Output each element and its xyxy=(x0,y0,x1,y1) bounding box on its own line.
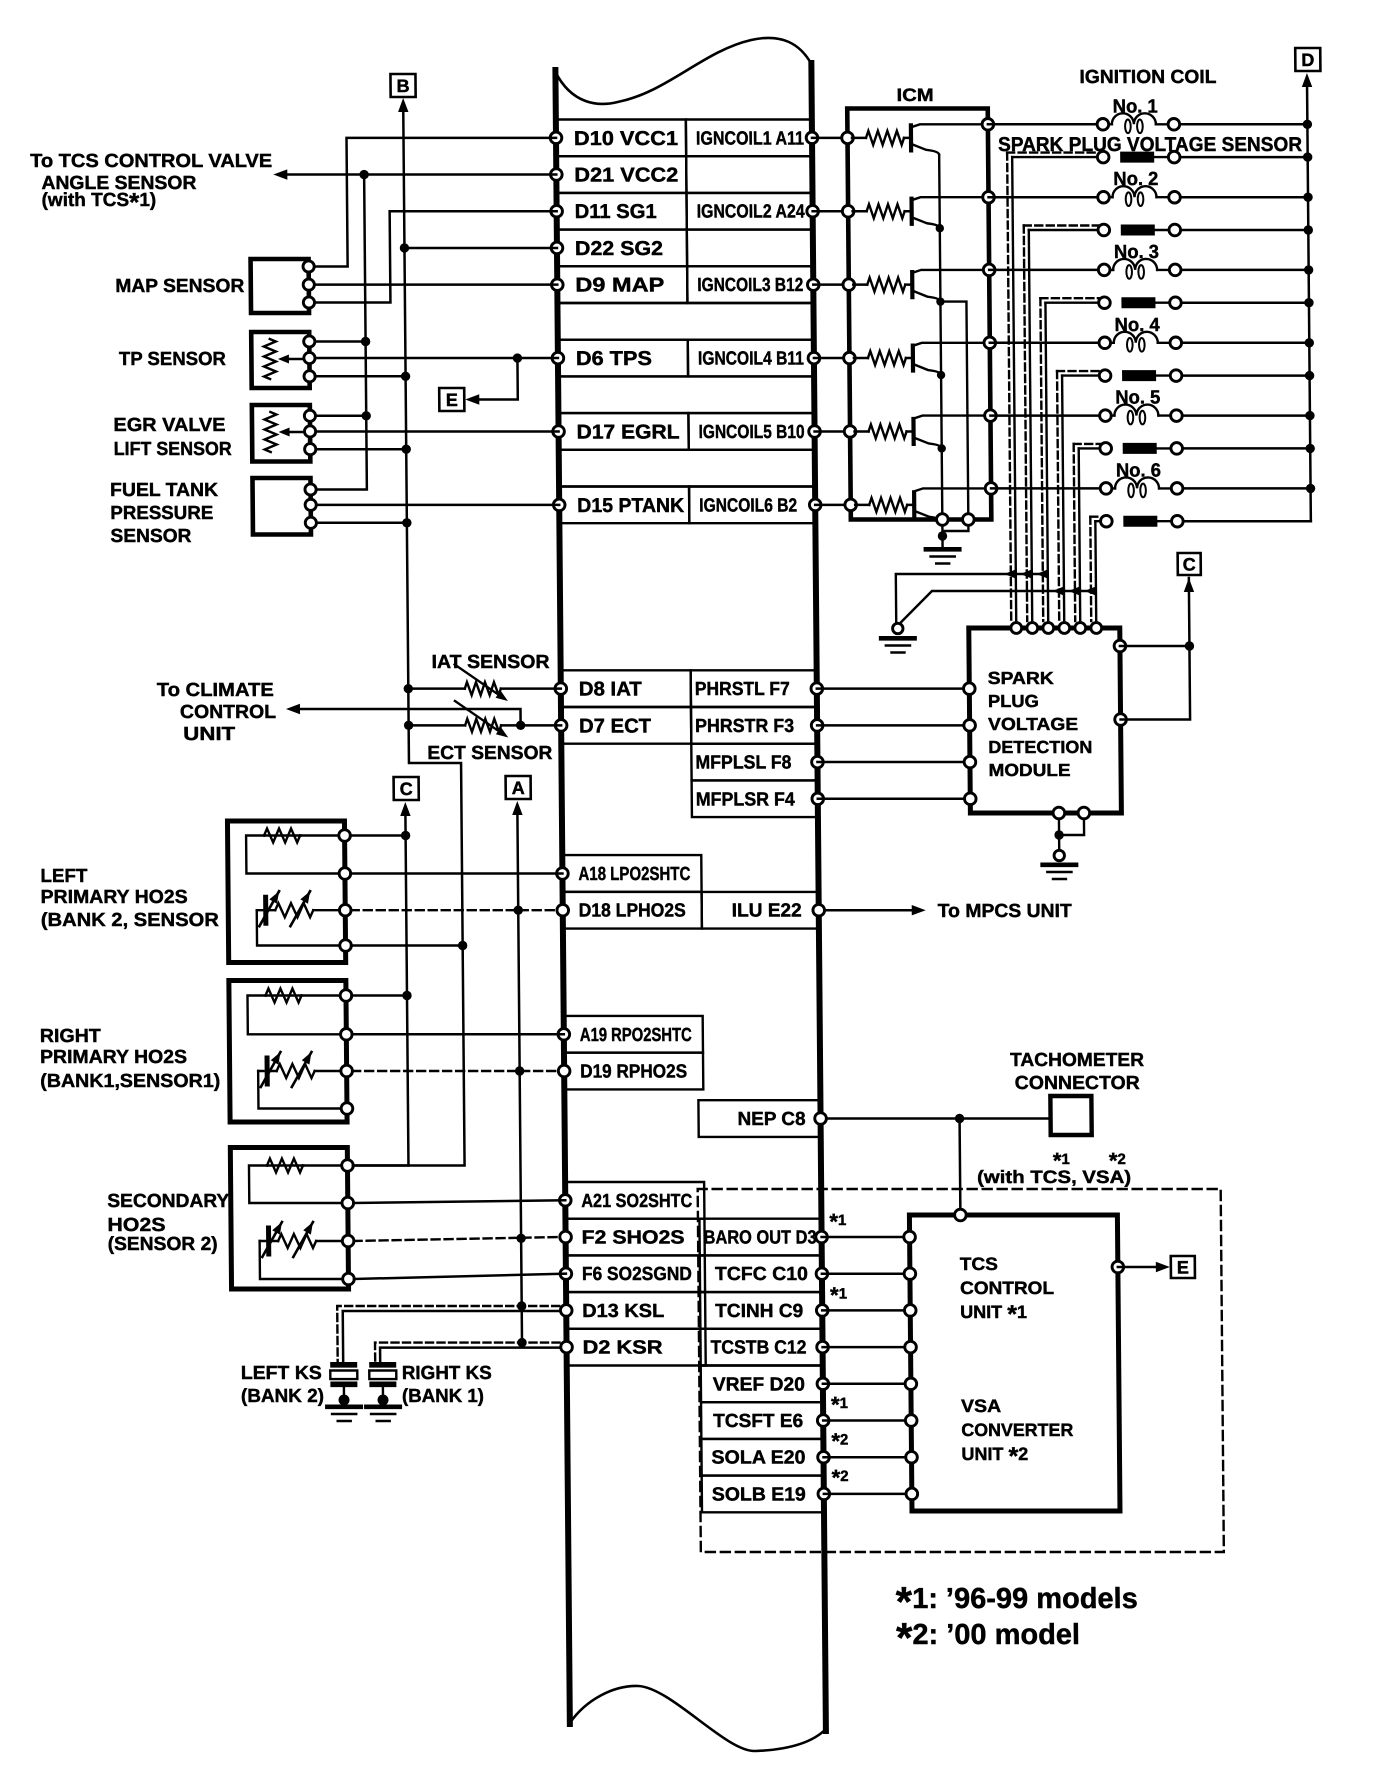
secondary HO2S heater resistor xyxy=(267,1164,304,1166)
pin terminal C8 xyxy=(815,1113,827,1125)
connector E xyxy=(439,388,464,411)
svg-text:IGNCOIL2 A24: IGNCOIL2 A24 xyxy=(697,202,806,223)
ICM output terminal 5 xyxy=(985,410,997,422)
wire TP pin3 to SG bus xyxy=(315,375,406,378)
pin terminal E19 xyxy=(818,1488,830,1500)
wire to climate control unit xyxy=(297,709,521,725)
svg-text:UNIT: UNIT xyxy=(183,724,236,745)
TCS control unit / VSA converter unit box xyxy=(909,1215,1120,1511)
spark plug voltage sensor No. 6 xyxy=(1090,516,1101,518)
ECM pin row D6 TPS xyxy=(558,340,688,377)
transistor Q6 xyxy=(912,492,916,517)
EGR pin 3 xyxy=(305,444,316,455)
ECM pin row TCSFT E6 xyxy=(701,1402,823,1439)
wire sensor 6 to D bus xyxy=(1183,520,1311,523)
ECM pin row BARO OUT D3 xyxy=(699,1219,821,1256)
svg-text:D13 KSL: D13 KSL xyxy=(582,1301,665,1322)
right primary HO2S xyxy=(229,981,347,1123)
svg-text:B: B xyxy=(396,76,409,96)
svg-text:D18 LPHO2S: D18 LPHO2S xyxy=(579,901,686,922)
wire coil 2 to D bus xyxy=(1181,196,1309,199)
svg-text:LEFT: LEFT xyxy=(40,866,88,887)
wire sensor 2 to D bus xyxy=(1181,229,1309,232)
wire module to ECM row 4 xyxy=(818,798,971,801)
FTP pin 2 xyxy=(305,499,316,510)
pin terminal OUT xyxy=(816,1231,828,1243)
pin terminal D6 xyxy=(552,352,564,364)
svg-text:A21 SO2SHTC: A21 SO2SHTC xyxy=(581,1191,692,1212)
ICM output terminal 1 xyxy=(982,119,994,131)
svg-text:D9 MAP: D9 MAP xyxy=(575,275,664,297)
svg-text:HO2S: HO2S xyxy=(107,1215,165,1236)
ECM right edge xyxy=(811,63,826,1731)
wire ILU E22 to MPCS unit xyxy=(825,909,913,912)
shield ground line 1 xyxy=(896,574,1043,623)
module top terminal 3 xyxy=(1043,623,1054,634)
ECM pin row D21 VCC2 xyxy=(556,156,686,193)
pin terminal D8 xyxy=(555,683,567,695)
ICM module box xyxy=(847,109,991,520)
right primary HO2S pin 2 xyxy=(340,1029,352,1041)
wire module to ECM row 2 xyxy=(817,724,970,727)
wire right primary HO2S pin2 to A19 RPO2SHTC xyxy=(352,1033,564,1036)
junction ICM emitter bus xyxy=(937,444,945,452)
wire sensor 1 to D bus xyxy=(1180,156,1308,159)
module top terminal 2 xyxy=(1027,623,1038,634)
svg-text:A18 LPO2SHTC: A18 LPO2SHTC xyxy=(578,864,690,885)
wire ECM to TCS terminal 2 xyxy=(822,1272,910,1275)
right primary HO2S pin 3 xyxy=(341,1065,353,1077)
wire ECM IGNCOIL1 to ICM stage 1 xyxy=(812,137,848,140)
svg-text:SENSOR: SENSOR xyxy=(110,526,191,547)
branch to connector E xyxy=(513,353,522,362)
ground (right knock sensor RIGHT KS) xyxy=(364,1405,402,1410)
spark plug voltage sensor No. 5 xyxy=(1074,443,1101,445)
ECM pin row PHRSTL F7 xyxy=(561,670,691,707)
ICM input terminal 3 xyxy=(843,279,855,291)
svg-text:PHRSTL F7: PHRSTL F7 xyxy=(695,679,790,700)
ICM output terminal 4 xyxy=(984,337,996,349)
pin terminal A18 xyxy=(557,868,569,880)
ECM pin row D18 LPHO2S xyxy=(563,892,702,929)
wire coil 3 to D bus xyxy=(1181,269,1309,272)
TP pin 1 xyxy=(304,336,315,347)
svg-text:MAP SENSOR: MAP SENSOR xyxy=(115,276,244,297)
connector B xyxy=(390,74,415,97)
ECM pin row MFPLSR F4 xyxy=(692,780,818,817)
pin terminal D9 xyxy=(551,279,563,291)
wire ECM to TCS terminal 1 xyxy=(822,1236,910,1239)
right primary HO2S heater resistor xyxy=(265,994,302,996)
wire left primary HO2S pin4 to SG bus xyxy=(351,944,463,947)
ICM input terminal 2 xyxy=(842,205,854,217)
svg-text:PRESSURE: PRESSURE xyxy=(110,503,213,524)
wire ECM to TCS terminal 4 xyxy=(823,1346,911,1349)
svg-text:D6 TPS: D6 TPS xyxy=(576,348,652,370)
svg-text:PRIMARY HO2S: PRIMARY HO2S xyxy=(40,1047,187,1068)
svg-text:F2 SHO2S: F2 SHO2S xyxy=(582,1228,685,1249)
svg-text:TCS: TCS xyxy=(960,1254,998,1274)
pin terminal A21 xyxy=(559,1195,571,1207)
svg-text:VREF D20: VREF D20 xyxy=(713,1374,805,1395)
svg-text:CONVERTER: CONVERTER xyxy=(961,1420,1073,1440)
module left terminal 2 xyxy=(964,720,976,732)
svg-text:IGNCOIL5 B10: IGNCOIL5 B10 xyxy=(698,422,804,443)
pin terminal D2 xyxy=(561,1341,573,1353)
connector D xyxy=(1295,48,1320,71)
svg-text:A: A xyxy=(512,778,525,798)
pin terminal D20 xyxy=(817,1378,829,1390)
wire sensor 3 to D bus xyxy=(1181,301,1309,304)
right primary HO2S sensing element xyxy=(265,1058,270,1084)
shield ground line 2 xyxy=(901,591,1091,622)
svg-text:PRIMARY HO2S: PRIMARY HO2S xyxy=(41,887,188,908)
secondary HO2S xyxy=(230,1148,348,1290)
wire TP pin2 to D6 TPS xyxy=(315,357,558,360)
transistor Q4 xyxy=(911,346,915,371)
pin terminal C10 xyxy=(816,1268,828,1280)
right primary HO2S pin 1 xyxy=(340,990,352,1002)
module left terminal 4 xyxy=(964,793,976,805)
left primary HO2S pin 2 xyxy=(339,868,351,880)
ECM pin row D2 KSR xyxy=(566,1329,705,1366)
wire module to ECM row 3 xyxy=(817,761,970,764)
svg-text:D: D xyxy=(1301,50,1314,70)
ICM output terminal 3 xyxy=(983,264,995,276)
wire right primary HO2S pin3 to D19 RPHO2S (shielded) xyxy=(352,1070,558,1072)
svg-text:To CLIMATE: To CLIMATE xyxy=(157,680,274,701)
wire left primary HO2S pin3 to D18 LPHO2S (shielded) xyxy=(351,909,557,911)
svg-text:C: C xyxy=(400,779,413,799)
svg-text:ILU E22: ILU E22 xyxy=(732,901,802,922)
svg-text:(BANK 2): (BANK 2) xyxy=(241,1386,324,1407)
svg-text:SOLB E19: SOLB E19 xyxy=(712,1484,806,1505)
wire D9 MAP to MAP pin2 xyxy=(314,283,557,286)
wire EGR pin2 to D17 EGRL xyxy=(316,430,559,433)
pin terminal F2 xyxy=(560,1231,572,1243)
TCS right terminal to connector E xyxy=(1112,1261,1124,1273)
left knock sensor LEFT KS xyxy=(330,1362,357,1368)
svg-text:VSA: VSA xyxy=(961,1396,1001,1416)
wire left knock sensor to D13 KSL (shield) xyxy=(337,1306,559,1361)
svg-text:To MPCS UNIT: To MPCS UNIT xyxy=(938,901,1073,922)
wire ECM IGNCOIL3 to ICM stage 3 xyxy=(813,283,849,286)
ECM pin row SOLA E20 xyxy=(701,1439,823,1476)
wire secondary HO2S pin3 to F2 SHO2S (shielded) xyxy=(354,1237,560,1241)
pin terminal D10 xyxy=(550,132,562,144)
svg-text:MFPLSL F8: MFPLSL F8 xyxy=(695,753,791,774)
ICM emitter bus 1 xyxy=(939,155,942,520)
pin terminal B11 xyxy=(808,352,820,364)
ECM empty spacer row 8 xyxy=(558,376,814,413)
connector E (right) xyxy=(1171,1256,1195,1278)
wire left knock sensor to D13 KSL (core) xyxy=(343,1311,561,1361)
pin terminal D18 xyxy=(557,904,569,916)
shielded cable 5 verticals xyxy=(1074,444,1076,621)
pin terminal E20 xyxy=(818,1451,830,1463)
wire left primary HO2S pin2 to A18 LPO2SHTC xyxy=(350,872,562,875)
pin terminal D7 xyxy=(555,720,567,732)
wire NEP C8 to tachometer connector xyxy=(827,1117,1051,1120)
TCS top terminal xyxy=(955,1209,967,1221)
wire right knock sensor to D2 KSR (core) xyxy=(380,1348,561,1361)
MAP pin 1 xyxy=(303,261,314,272)
ECM pin row D15 PTANK xyxy=(559,487,689,524)
svg-text:(BANK 2, SENSOR: (BANK 2, SENSOR xyxy=(41,910,219,931)
svg-text:D21 VCC2: D21 VCC2 xyxy=(574,165,678,187)
wire coil 5 to D bus xyxy=(1182,414,1310,417)
svg-text:(SENSOR 2): (SENSOR 2) xyxy=(108,1234,218,1255)
ECM pin row MFPLSL F8 xyxy=(691,744,817,781)
transistor Q3 xyxy=(910,272,914,297)
ECM pin row D19 RPHO2S xyxy=(564,1053,703,1090)
wire module to ECM row 1 xyxy=(817,687,970,690)
spark plug voltage sensor No. 4 xyxy=(1057,370,1100,372)
junction ICM emitter bus xyxy=(937,371,945,379)
module left terminal 3 xyxy=(964,756,976,768)
shielded cable 2 verticals xyxy=(1024,226,1027,622)
svg-text:(BANK1,SENSOR1): (BANK1,SENSOR1) xyxy=(40,1071,220,1092)
module bottom terminals xyxy=(1053,807,1065,819)
shielded cable 6 verticals xyxy=(1089,517,1092,621)
wire ECM to TCS terminal 3 xyxy=(822,1309,910,1312)
SG bus vertical xyxy=(344,112,465,1166)
ICM output terminal 6 xyxy=(985,483,997,495)
FTP pin 1 xyxy=(305,484,316,495)
ECM pin row D22 SG2 xyxy=(557,230,687,267)
ECM pin row VREF D20 xyxy=(701,1366,823,1403)
ECM pin row F6 SO2SGND xyxy=(566,1255,705,1292)
ICM emitter bus 2 xyxy=(940,302,968,520)
svg-text:LIFT SENSOR: LIFT SENSOR xyxy=(114,439,232,460)
wire ECM to TCS terminal 5 xyxy=(823,1383,911,1386)
pin terminal D17 xyxy=(553,426,565,438)
ECM empty spacer row 10 xyxy=(559,450,815,487)
module right terminal 2 xyxy=(1115,714,1127,726)
svg-text:To TCS CONTROL VALVE: To TCS CONTROL VALVE xyxy=(30,151,272,172)
svg-text:D10 VCC1: D10 VCC1 xyxy=(574,128,678,150)
svg-text:ICM: ICM xyxy=(897,85,934,105)
svg-text:D15 PTANK: D15 PTANK xyxy=(577,495,685,517)
svg-text:CONNECTOR: CONNECTOR xyxy=(1015,1073,1140,1094)
pin terminal B2 xyxy=(809,499,821,511)
EGR pin 1 xyxy=(304,410,315,421)
TP sensor xyxy=(251,332,309,388)
wire secondary HO2S pin4 to F6 SO2SGND xyxy=(354,1274,566,1279)
pin terminal A19 xyxy=(558,1029,570,1041)
svg-text:CONTROL: CONTROL xyxy=(960,1278,1054,1298)
ECM pin row PHRSTR F3 xyxy=(561,707,691,744)
TP pin 2 xyxy=(304,352,315,363)
svg-text:A19 RPO2SHTC: A19 RPO2SHTC xyxy=(580,1025,692,1046)
secondary HO2S pin 2 xyxy=(342,1197,354,1209)
wire ECM to TCS terminal 6 xyxy=(823,1419,911,1422)
module top terminal 4 xyxy=(1059,623,1070,634)
ICM input terminal 1 xyxy=(842,132,854,144)
wire EGR pin1 to VCC2 bus xyxy=(315,415,366,418)
svg-text:EGR VALVE: EGR VALVE xyxy=(113,415,225,436)
EGR valve lift sensor xyxy=(252,405,310,462)
FTP pin 3 xyxy=(305,517,316,528)
spark plug voltage sensor No. 1 xyxy=(1007,151,1098,153)
wire ECM IGNCOIL6 to ICM stage 6 xyxy=(815,504,851,507)
ECM pin row A18 LPO2SHTC xyxy=(562,855,701,892)
secondary HO2S pin 1 xyxy=(342,1160,354,1172)
pin terminal B10 xyxy=(809,426,821,438)
wire coil 4 to D bus xyxy=(1182,342,1310,345)
svg-text:TP SENSOR: TP SENSOR xyxy=(119,349,226,370)
TP pin 3 xyxy=(304,371,315,382)
pin terminal F3 xyxy=(811,720,823,732)
pin terminal E22 xyxy=(813,904,825,916)
wire EGR pin3 to SG bus xyxy=(316,448,407,451)
wire ECM IGNCOIL2 to ICM stage 2 xyxy=(813,210,849,213)
pin terminal D13 xyxy=(560,1305,572,1317)
VCC2 bus vertical xyxy=(313,175,367,490)
svg-text:IGNCOIL1 A11: IGNCOIL1 A11 xyxy=(696,128,805,149)
resistor ICM stage 2 xyxy=(853,210,867,213)
EGR sensor potentiometer xyxy=(264,412,276,452)
shielded cable 3 verticals xyxy=(1040,298,1043,621)
junction ICM emitter bus xyxy=(936,224,944,232)
left primary HO2S pin 1 xyxy=(339,830,351,842)
ECM pin row A19 RPO2SHTC xyxy=(564,1016,703,1053)
left primary HO2S heater resistor xyxy=(264,834,301,836)
EGR pin 2 xyxy=(304,426,315,437)
svg-text:LEFT KS: LEFT KS xyxy=(241,1363,322,1384)
transistor Q1 xyxy=(909,125,913,150)
svg-text:IGNITION COIL: IGNITION COIL xyxy=(1079,67,1217,88)
svg-text:SOLA E20: SOLA E20 xyxy=(711,1448,805,1469)
resistor ICM stage 3 xyxy=(853,283,867,286)
pin terminal E6 xyxy=(817,1415,829,1427)
svg-text:D11 SG1: D11 SG1 xyxy=(575,201,657,223)
connector C (right) xyxy=(1178,553,1201,575)
wire NEP branch to TCS unit xyxy=(958,1119,961,1216)
ICM input terminal 5 xyxy=(844,426,856,438)
pin terminal D15 xyxy=(553,499,565,511)
MAP pin 2 xyxy=(303,279,314,290)
MAP pin 3 xyxy=(303,297,314,308)
module top terminal 5 xyxy=(1075,623,1086,634)
wire D22 SG2 to SG bus xyxy=(404,247,556,250)
wire FTP pin2 to D15 PTANK xyxy=(316,504,559,507)
spark plug voltage detection module xyxy=(969,628,1122,813)
ECM pin row D11 SG1 xyxy=(556,193,686,230)
svg-text:FUEL TANK: FUEL TANK xyxy=(110,480,218,501)
wire D21 VCC2 / to TCS control valve angle sensor xyxy=(285,173,556,176)
svg-text:IGNCOIL3 B12: IGNCOIL3 B12 xyxy=(697,275,803,296)
wire sensor 4 to D bus xyxy=(1182,374,1310,377)
ECM pin row D17 EGRL xyxy=(558,413,688,450)
ground (module) xyxy=(1059,819,1084,851)
secondary HO2S sensing element xyxy=(266,1228,271,1254)
pin terminal B12 xyxy=(807,279,819,291)
wire secondary HO2S pin2 to A21 SO2SHTC xyxy=(353,1200,565,1203)
right knock sensor RIGHT KS xyxy=(369,1362,396,1368)
pin terminal D22 xyxy=(551,242,563,254)
svg-text:F6 SO2SGND: F6 SO2SGND xyxy=(582,1264,692,1285)
ICM output terminal 2 xyxy=(983,191,995,203)
svg-text:D22 SG2: D22 SG2 xyxy=(575,238,663,260)
ECM pin row F2 SHO2S xyxy=(565,1219,704,1256)
ICM input terminal 4 xyxy=(844,352,856,364)
connector A xyxy=(506,776,531,799)
svg-text:CONTROL: CONTROL xyxy=(180,702,277,723)
fuel tank pressure sensor xyxy=(252,478,310,535)
svg-text:TCSTB C12: TCSTB C12 xyxy=(710,1338,806,1359)
pin terminal F7 xyxy=(811,683,823,695)
wire ECM IGNCOIL5 to ICM stage 5 xyxy=(815,430,851,433)
transistor Q5 xyxy=(911,419,915,444)
module top terminal 1 xyxy=(1011,623,1022,634)
svg-text:TCFC C10: TCFC C10 xyxy=(715,1264,808,1285)
ECM pin row TCFC C10 xyxy=(700,1255,822,1292)
ICM ground terminals xyxy=(936,514,948,526)
shielded cable 1 verticals xyxy=(1007,153,1011,621)
pin terminal D21 xyxy=(550,169,562,181)
A bus vertical xyxy=(517,814,522,1343)
resistor ICM stage 4 xyxy=(854,357,868,360)
secondary HO2S pin 4 xyxy=(343,1273,355,1285)
wire coil 1 to D bus xyxy=(1180,123,1308,126)
left primary HO2S xyxy=(227,821,345,963)
svg-text:D2 KSR: D2 KSR xyxy=(582,1338,662,1359)
svg-text:MFPLSR F4: MFPLSR F4 xyxy=(696,789,796,810)
svg-text:D17 EGRL: D17 EGRL xyxy=(576,422,679,444)
ECM torn bottom edge xyxy=(570,1686,827,1751)
svg-text:DETECTION: DETECTION xyxy=(988,737,1092,757)
TCS/VSA dashed enclosure xyxy=(698,1189,1224,1552)
junction ICM emitter bus xyxy=(936,297,944,305)
wire module to connector C xyxy=(1119,578,1190,720)
resistor ICM stage 1 xyxy=(852,137,866,140)
pin terminal F6 xyxy=(560,1268,572,1280)
svg-text:SECONDARY: SECONDARY xyxy=(107,1191,230,1212)
svg-text:SPARK: SPARK xyxy=(988,668,1055,688)
wire D11 SG1 to MAP pin3 xyxy=(314,211,558,302)
svg-text:TACHOMETER: TACHOMETER xyxy=(1010,1050,1144,1071)
wire left primary HO2S pin1 to C bus xyxy=(350,834,406,837)
svg-text:E: E xyxy=(1177,1258,1189,1278)
wire FTP pin3 to SG bus xyxy=(316,522,407,525)
wire ECM to TCS terminal 8 xyxy=(824,1493,912,1496)
svg-text:RIGHT KS: RIGHT KS xyxy=(402,1363,492,1384)
pin terminal D19 xyxy=(558,1065,570,1077)
svg-text:IGNCOIL6 B2: IGNCOIL6 B2 xyxy=(699,495,797,516)
svg-text:(BANK 1): (BANK 1) xyxy=(402,1386,484,1407)
svg-text:IAT SENSOR: IAT SENSOR xyxy=(431,652,549,673)
wire D10 VCC1 to MAP pin1 xyxy=(313,138,557,267)
svg-text:D19 RPHO2S: D19 RPHO2S xyxy=(580,1062,687,1083)
ECM torn top edge xyxy=(555,38,812,104)
svg-text:C: C xyxy=(1183,555,1196,575)
pin terminal F4 xyxy=(812,793,824,805)
shielded cable 4 verticals xyxy=(1057,371,1059,621)
svg-text:VOLTAGE: VOLTAGE xyxy=(988,714,1078,734)
svg-text:ECT SENSOR: ECT SENSOR xyxy=(427,743,552,764)
svg-text:RIGHT: RIGHT xyxy=(40,1026,102,1047)
ECM pin row D10 VCC1 xyxy=(556,120,686,157)
left primary HO2S pin 4 xyxy=(340,940,352,952)
resistor ICM stage 5 xyxy=(855,430,869,433)
transistor Q2 xyxy=(909,199,913,224)
pin terminal F8 xyxy=(812,756,824,768)
svg-text:NEP C8: NEP C8 xyxy=(737,1109,805,1130)
svg-text:PLUG: PLUG xyxy=(988,691,1039,711)
left primary HO2S sensing element xyxy=(263,897,268,923)
spark plug voltage sensor No. 3 xyxy=(1040,297,1099,299)
